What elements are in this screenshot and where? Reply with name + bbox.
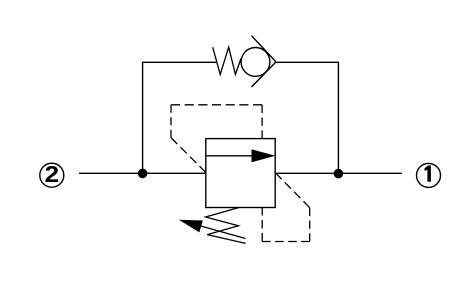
drain line (dashed) right vertical (309, 208, 311, 242)
port 2 circle (40, 163, 64, 187)
drain line (dashed) diagonal from box right (275, 173, 309, 208)
check valve CV1 ball (241, 48, 270, 77)
drain line (dashed) bottom horizontal (262, 241, 310, 243)
check valve CV1 seat (252, 36, 277, 87)
wire: top loop right horizontal from check valve seat (276, 61, 339, 63)
port 1 label (425, 165, 431, 181)
svg-text:2: 2 (45, 163, 59, 188)
wire: top loop left horizontal to spring (142, 61, 217, 63)
pilot line (dashed) diagonal to box left (171, 138, 206, 173)
pilot line (dashed) left vertical (170, 105, 172, 138)
adjustment arrow across spring S2 (201, 226, 245, 238)
junction dot left (138, 169, 148, 179)
spring S1 (check valve spring, top) (213, 47, 241, 74)
wire: top bypass loop left vertical (142, 62, 144, 173)
pilot line (dashed) top horizontal (171, 104, 262, 106)
pilot line (dashed) right vertical to box top (261, 105, 263, 139)
wire: top bypass loop right vertical (337, 62, 339, 173)
drain line (dashed) left vertical to box bottom (261, 207, 263, 242)
spring S2 (main relief spring, bottom, zigzag) (206, 208, 246, 244)
wire: main horizontal line port2 to port1 (79, 172, 402, 174)
port 1 circle (417, 163, 441, 187)
junction dot right (334, 169, 344, 179)
valve V1 envelope box (206, 139, 275, 208)
valve V1 flow path arrow (206, 155, 253, 157)
